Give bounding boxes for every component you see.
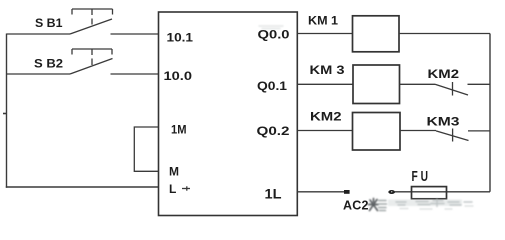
junction tick on left bus bbox=[3, 113, 7, 115]
wire: SB2 left bbox=[7, 73, 71, 75]
NC contact KM2 bbox=[435, 82, 490, 96]
watermark smudge (gray) bbox=[259, 26, 473, 211]
wire: 1L to AC terminal bbox=[298, 191, 345, 193]
wire: terminal through fuse to right bus bbox=[395, 191, 490, 193]
svg-text:KM2: KM2 bbox=[310, 110, 342, 124]
wire: SB1 to input I0.1 bbox=[111, 33, 159, 35]
fuse FU bbox=[412, 187, 447, 199]
node: AC terminal dot bbox=[388, 190, 395, 194]
svg-text:Q0.2: Q0.2 bbox=[257, 124, 290, 138]
svg-text:L: L bbox=[169, 182, 176, 196]
wire: right bus vertical bbox=[489, 34, 491, 192]
wire: SB2 to input I0.0 bbox=[111, 73, 159, 75]
wire: Q0.1 to KM3 coil bbox=[298, 83, 354, 85]
svg-text:KM 1: KM 1 bbox=[308, 14, 338, 28]
svg-text:Q0.0: Q0.0 bbox=[258, 28, 290, 42]
svg-text:M: M bbox=[169, 165, 179, 179]
svg-text:S B1: S B1 bbox=[35, 16, 63, 30]
svg-text:1M: 1M bbox=[171, 123, 187, 137]
wire: Q0.2 to KM2 coil bbox=[298, 130, 353, 132]
svg-text:F U: F U bbox=[412, 168, 429, 185]
wire: KM2 coil to contact KM3 bbox=[400, 130, 436, 132]
svg-text:10.0: 10.0 bbox=[164, 69, 193, 83]
wire: left bus vertical bbox=[6, 34, 8, 188]
svg-text:10.1: 10.1 bbox=[167, 31, 194, 45]
pushbutton SB2 (NO contact with actuator) bbox=[70, 49, 113, 74]
contactor coil KM2 bbox=[353, 113, 401, 151]
wire: bottom rail to L+ bbox=[6, 186, 159, 188]
wire: Q0.0 to KM1 coil bbox=[298, 33, 353, 35]
wire: SB1 left bbox=[7, 33, 71, 35]
node: AC terminal square bbox=[344, 190, 350, 194]
svg-text:S B2: S B2 bbox=[34, 57, 63, 71]
svg-text:KM 3: KM 3 bbox=[310, 63, 345, 77]
wire: KM3 coil to contact KM2 bbox=[400, 83, 436, 85]
pushbutton SB1 (NO contact with actuator) bbox=[70, 9, 113, 34]
wire: 1M to M bracket bbox=[134, 127, 158, 171]
wire: KM1 coil to right bus bbox=[399, 33, 490, 35]
svg-text:AC2: AC2 bbox=[343, 199, 369, 213]
svg-text:KM2: KM2 bbox=[428, 69, 460, 81]
PLC U1 box bbox=[159, 12, 298, 216]
NC contact KM3 bbox=[436, 129, 490, 142]
svg-text:Q0.1: Q0.1 bbox=[257, 79, 287, 93]
contactor coil KM1 bbox=[353, 16, 400, 52]
svg-text:1L: 1L bbox=[265, 185, 282, 201]
svg-text:KM3: KM3 bbox=[427, 114, 460, 128]
contactor coil KM3 bbox=[353, 65, 400, 104]
